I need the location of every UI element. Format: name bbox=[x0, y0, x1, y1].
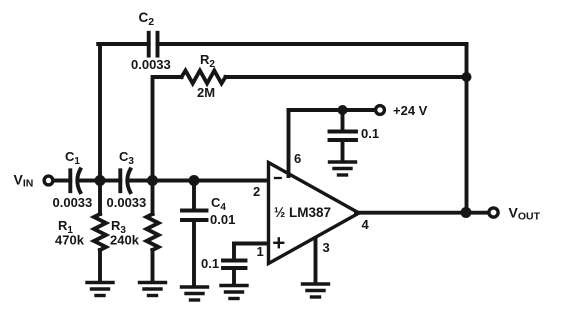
svg-text:4: 4 bbox=[362, 217, 370, 232]
junction node B (C3 / R3 / R2 riser) bbox=[147, 175, 158, 186]
junction: R2 / right feedback vertical bbox=[462, 72, 472, 82]
svg-text:2M: 2M bbox=[197, 85, 215, 100]
svg-text:0.01: 0.01 bbox=[210, 212, 235, 227]
wire: supply row to +24V terminal bbox=[289, 108, 375, 112]
svg-text:0.1: 0.1 bbox=[201, 256, 219, 271]
op-amp minus input marker bbox=[275, 177, 281, 179]
terminal VOUT bbox=[489, 208, 498, 217]
wire: right feedback vertical (top row down to output row) bbox=[465, 44, 469, 213]
svg-text:+24 V: +24 V bbox=[393, 103, 428, 118]
junction node A (C1 / C3 / R1 / feedback) bbox=[95, 175, 106, 186]
svg-text:C1: C1 bbox=[65, 149, 80, 167]
svg-text:0.0033: 0.0033 bbox=[131, 57, 171, 72]
wire: pin 3 to ground bbox=[314, 238, 318, 283]
wire: R2 row riser from node B and segment to R2 bbox=[153, 77, 182, 181]
resistor R3 bbox=[147, 181, 159, 281]
junction: supply bypass tap bbox=[338, 105, 348, 115]
wire: op-amp pin 1 to bypass cap bbox=[234, 242, 269, 246]
op-amp plus input marker bbox=[274, 238, 283, 247]
terminal VIN bbox=[44, 176, 53, 185]
wire: C3 to op-amp pin 2 (through nodes B and C) bbox=[130, 179, 270, 183]
op-amp U1 (1/2 LM387) bbox=[269, 163, 360, 264]
ground (R1) bbox=[87, 283, 113, 296]
ground (R3) bbox=[140, 283, 166, 296]
capacitor 0.1 supply bypass bbox=[330, 110, 357, 161]
svg-text:C2: C2 bbox=[139, 10, 155, 28]
ground (C4) bbox=[182, 287, 208, 300]
terminal +24V bbox=[376, 106, 385, 115]
capacitor C1 bbox=[70, 169, 80, 192]
svg-text:C3: C3 bbox=[119, 149, 134, 167]
svg-text:0.0033: 0.0033 bbox=[107, 195, 147, 210]
svg-text:R2: R2 bbox=[200, 52, 215, 70]
svg-text:½ LM387: ½ LM387 bbox=[274, 205, 331, 220]
wire: pin 6 riser to supply row bbox=[287, 110, 291, 176]
capacitor C4 bbox=[182, 181, 207, 286]
junction node C (C4 tap) bbox=[189, 175, 200, 186]
wire: output pin 4 to VOUT terminal bbox=[356, 211, 488, 215]
svg-text:VOUT: VOUT bbox=[509, 205, 541, 223]
capacitor 0.1 at pin 1 bbox=[223, 244, 246, 285]
svg-text:2: 2 bbox=[253, 184, 260, 199]
ground (pin 1 bypass cap) bbox=[221, 286, 247, 299]
wire: top row, node corner to C2 left plate bbox=[98, 42, 149, 46]
svg-text:VIN: VIN bbox=[14, 172, 34, 190]
wire: C1 to C3 (through node A) bbox=[80, 179, 121, 183]
wire: R2 to right feedback vertical bbox=[226, 75, 467, 79]
capacitor C2 bbox=[149, 33, 158, 56]
ground (pin 3) bbox=[303, 284, 329, 297]
svg-text:470k: 470k bbox=[55, 233, 85, 248]
svg-text:240k: 240k bbox=[110, 233, 140, 248]
svg-text:C4: C4 bbox=[211, 195, 226, 213]
svg-text:0.1: 0.1 bbox=[361, 126, 379, 141]
ground (supply bypass) bbox=[330, 162, 356, 175]
resistor R1 bbox=[94, 181, 106, 281]
wire: VIN terminal to C1 bbox=[54, 179, 70, 183]
svg-text:0.0033: 0.0033 bbox=[53, 195, 93, 210]
junction: output / feedback bbox=[461, 207, 472, 218]
capacitor C3 bbox=[120, 169, 130, 192]
wire: left feedback vertical (node A up to top row) bbox=[98, 44, 102, 181]
wire: top row, C2 right plate to right feedback vertical bbox=[158, 42, 467, 46]
resistor R2 bbox=[182, 71, 226, 84]
svg-text:3: 3 bbox=[323, 240, 330, 255]
svg-text:1: 1 bbox=[257, 244, 264, 259]
svg-text:6: 6 bbox=[294, 151, 301, 166]
